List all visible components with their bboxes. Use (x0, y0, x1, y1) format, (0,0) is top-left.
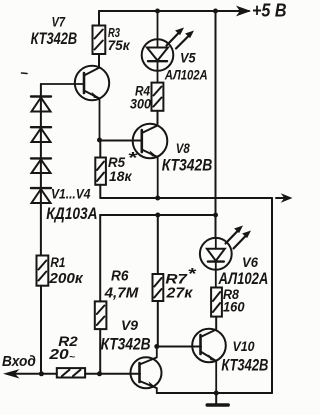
svg-text:АЛ102А: АЛ102А (218, 270, 269, 288)
node junction R1 bottom on input line (39, 371, 44, 376)
LED V6 (200, 226, 251, 288)
svg-text:Вход: Вход (2, 354, 36, 370)
diode V2 (31, 127, 51, 142)
wire bottom emitter rail (157, 392, 272, 394)
svg-text:+5 В: +5 В (252, 0, 287, 20)
svg-text:200к: 200к (48, 270, 84, 287)
resistor R2 (57, 368, 85, 377)
stray dash mark (22, 72, 28, 75)
transistor V7 (41, 66, 109, 140)
svg-text:V6: V6 (242, 254, 258, 270)
wire V6/+5V column (215, 11, 217, 238)
output arrow right (276, 197, 284, 199)
node junction line2 to V6 column (213, 213, 218, 218)
resistor R8 (211, 288, 222, 329)
+5V arrow (236, 6, 251, 17)
wire right border down (271, 198, 273, 393)
wire V10 base (157, 346, 201, 348)
diode V3 (31, 158, 51, 173)
svg-text:75к: 75к (108, 38, 131, 53)
svg-text:20: 20 (48, 347, 68, 363)
resistor R5 (95, 158, 106, 199)
node junction R7 top on line2 (155, 213, 160, 218)
wire input line with arrow (3, 369, 140, 378)
svg-text:V5: V5 (180, 50, 196, 66)
node junction V6 column on +5V rail (213, 9, 218, 14)
wire R7 column (157, 215, 159, 274)
resistor R6 (95, 301, 107, 373)
wire diode chain column (40, 84, 42, 256)
svg-text:R6: R6 (111, 268, 129, 285)
svg-text:КТ342В: КТ342В (221, 355, 268, 374)
svg-text:V8: V8 (176, 140, 190, 156)
wire line2 +5V distribution (100, 214, 215, 216)
node junction V7 emitter / R5 / V8 base (97, 138, 102, 143)
resistor R3 (93, 11, 106, 67)
svg-text:160: 160 (223, 300, 245, 315)
svg-text:300: 300 (130, 97, 151, 112)
diode V4 (31, 188, 51, 203)
resistor R7 (153, 274, 164, 347)
svg-text:18к: 18к (109, 168, 132, 184)
ground (207, 393, 228, 405)
node junction V9 collector / R7 bottom / V10 base (154, 344, 159, 349)
wire junction to R5 (99, 140, 101, 158)
node junction R6 bottom on input line (97, 371, 102, 376)
resistor R1 (37, 256, 49, 374)
svg-text:КТ342В: КТ342В (101, 334, 151, 353)
svg-text:R7: R7 (165, 270, 188, 286)
transistor V10 (192, 329, 226, 393)
svg-text:*: * (188, 266, 197, 283)
wire +5V top rail (99, 10, 249, 12)
svg-text:V9: V9 (121, 317, 138, 333)
svg-text:V7: V7 (52, 14, 66, 30)
svg-text:КД103А: КД103А (46, 204, 97, 223)
svg-text:R1: R1 (50, 255, 65, 270)
LED V5 (142, 11, 194, 83)
transistor V9 (131, 347, 162, 394)
svg-text:~: ~ (69, 352, 76, 362)
node junction V5 column on +5V rail (155, 9, 160, 14)
wire line1 R5/V8-emitter to right (100, 197, 272, 199)
svg-text:27к: 27к (165, 286, 193, 302)
transistor V8 (133, 124, 168, 198)
diode V1 (31, 97, 51, 112)
svg-text:4,7М: 4,7М (104, 285, 139, 302)
svg-text:АЛ102А: АЛ102А (164, 68, 208, 83)
wire V8 base (100, 140, 143, 142)
svg-text:*: * (128, 150, 138, 167)
svg-text:КТ342В: КТ342В (31, 29, 78, 48)
wire R6 column (99, 215, 101, 301)
svg-text:V1...V4: V1...V4 (51, 186, 91, 202)
svg-text:КТ342В: КТ342В (162, 156, 213, 175)
resistor R4 (152, 83, 164, 124)
node junction V10 emitter on bottom rail (214, 391, 219, 396)
node junction V8 emitter on line1 (155, 196, 160, 201)
svg-text:V10: V10 (233, 338, 255, 354)
